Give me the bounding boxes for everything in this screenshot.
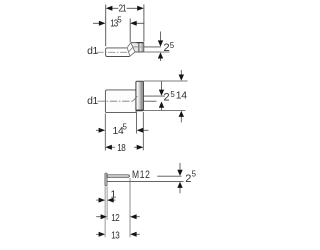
svg-text:5: 5 [117,15,122,24]
svg-text:14: 14 [176,90,187,101]
svg-text:d1: d1 [87,46,98,57]
svg-text:1: 1 [111,189,117,200]
svg-text:21: 21 [119,3,127,14]
svg-text:12: 12 [111,212,119,223]
svg-text:13: 13 [111,229,119,240]
svg-text:5: 5 [123,122,128,131]
svg-text:18: 18 [117,142,125,153]
svg-text:2: 2 [185,173,191,185]
svg-text:2: 2 [164,42,170,54]
svg-text:2: 2 [164,92,170,104]
svg-text:d1: d1 [87,96,98,107]
svg-text:5: 5 [170,41,175,50]
svg-text:5: 5 [192,170,197,179]
svg-text:5: 5 [170,90,175,99]
svg-text:M12: M12 [132,169,151,181]
